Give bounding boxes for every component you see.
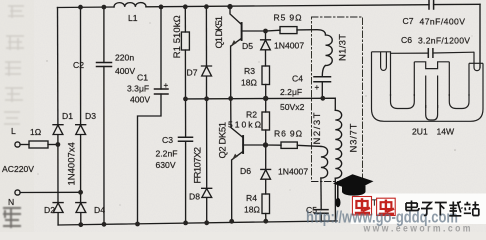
node bus-D7/D8 <box>204 96 209 101</box>
svg-text:C4: C4 <box>292 74 303 84</box>
capacitor C7 <box>429 1 434 10</box>
svg-text:2.2nF: 2.2nF <box>156 149 178 159</box>
diode D8 <box>202 188 212 223</box>
wire D8 branch <box>206 99 208 188</box>
wire C1 bottom jog <box>138 94 162 224</box>
node rail-R1 <box>183 4 188 9</box>
lamp tube4 top edge <box>469 62 483 64</box>
wire L to R fuse <box>20 144 29 146</box>
diode D4 <box>76 203 86 225</box>
node rail-Q2 emitter <box>229 219 234 224</box>
diode D7 <box>202 66 212 99</box>
wire bus corner to N3 <box>323 98 336 110</box>
svg-text:1N4007: 1N4007 <box>274 41 304 51</box>
inductor L1 <box>114 3 146 7</box>
wire left rail down <box>57 8 59 125</box>
node rail-D7 <box>204 4 209 9</box>
svg-text:N2/3T: N2/3T <box>312 112 323 144</box>
diode D5 <box>261 31 271 66</box>
svg-text:D8: D8 <box>189 192 200 202</box>
svg-text:C7: C7 <box>403 16 414 26</box>
filament hook left <box>381 52 387 71</box>
node fuse-bridge <box>56 142 61 147</box>
wire top rail middle segment <box>146 5 429 7</box>
resistor R1 <box>181 32 189 50</box>
node rail-D3 <box>78 5 83 10</box>
watermark text dian <box>406 201 419 211</box>
diode D6 <box>261 145 271 194</box>
svg-text:3.2nF/1200V: 3.2nF/1200V <box>418 36 470 46</box>
watermark grad cap <box>333 174 374 207</box>
svg-text:+: + <box>315 83 320 92</box>
terminal L <box>15 142 20 147</box>
svg-text:1Ω: 1Ω <box>30 127 42 137</box>
winding N2 <box>321 146 328 178</box>
svg-text:R5 9Ω: R5 9Ω <box>274 13 303 23</box>
resistor R3 <box>262 66 270 85</box>
wire top rail right segment <box>434 3 480 5</box>
watermark text xia <box>435 203 447 216</box>
resistor R2 <box>265 99 267 113</box>
watermark text zhan <box>464 202 479 216</box>
svg-text:D5: D5 <box>242 41 253 51</box>
node Q1 base <box>263 29 268 34</box>
wire N3 to rail <box>334 178 336 221</box>
watermark bug tile 2 <box>377 198 396 215</box>
svg-text:w w w . e e w o r m . c o m: w w w . e e w o r m . c o m <box>363 224 471 233</box>
paper specks <box>37 22 472 205</box>
svg-text:N: N <box>8 197 14 207</box>
svg-text:N3/7T: N3/7T <box>349 123 360 152</box>
node rail-C2 bottom <box>102 222 107 227</box>
capacitor C6 <box>428 48 433 58</box>
node bus-R1/C3 <box>183 97 188 102</box>
lamp inner hole left <box>391 94 415 109</box>
wire R6 to N2 <box>297 145 321 146</box>
svg-text:50Vx2: 50Vx2 <box>280 102 305 112</box>
node rail-C1 <box>159 5 164 10</box>
svg-text:D3: D3 <box>85 111 96 121</box>
svg-text:D1: D1 <box>62 111 73 121</box>
terminal N <box>15 190 20 195</box>
svg-text:47nF/400V: 47nF/400V <box>420 17 466 27</box>
node rail-C2 <box>102 5 107 10</box>
capacitor C4 <box>314 77 331 82</box>
svg-text:R4: R4 <box>246 193 257 203</box>
svg-text:D2: D2 <box>44 205 55 215</box>
lamp bottom outer <box>372 98 484 121</box>
svg-text:3.3μF: 3.3μF <box>127 84 149 94</box>
svg-text:R2: R2 <box>246 110 257 120</box>
svg-text:R6 9Ω: R6 9Ω <box>274 129 303 139</box>
svg-text:2.2μF: 2.2μF <box>280 87 302 97</box>
svg-text:Q2 DK51: Q2 DK51 <box>218 122 229 159</box>
watermark white box <box>351 194 486 225</box>
diode D2 <box>53 203 63 225</box>
lamp inner hole right <box>449 94 469 109</box>
wire R1 branch <box>184 7 186 32</box>
svg-text:R1 510kΩ: R1 510kΩ <box>172 15 183 58</box>
svg-text:L: L <box>11 126 16 136</box>
node bus-Q1e/Q2c <box>228 96 233 101</box>
filament hook right <box>474 52 480 71</box>
node rail-Q1 collector <box>227 4 232 9</box>
faint left watermark column <box>4 6 24 124</box>
wire D1 to D2 <box>57 145 59 203</box>
svg-text:N1/3T: N1/3T <box>338 34 349 61</box>
wire mid bus <box>186 97 323 100</box>
watermark bug tile 1 <box>352 197 371 215</box>
svg-text:630V: 630V <box>156 160 176 170</box>
svg-text:C3: C3 <box>162 135 173 145</box>
winding N1 <box>326 35 333 66</box>
svg-text:D4: D4 <box>94 205 105 215</box>
capacitor C5 <box>315 210 329 214</box>
wire C2 branch <box>103 7 105 224</box>
svg-text:18Ω: 18Ω <box>244 205 261 215</box>
wire N to bridge <box>20 191 81 193</box>
wire N1 to C4 <box>322 66 325 77</box>
watermark text zai <box>449 202 462 216</box>
wire branch D3/D4 <box>80 7 82 124</box>
svg-text:FR107X2: FR107X2 <box>193 147 204 184</box>
svg-text:D7: D7 <box>187 68 198 78</box>
wire lamp top <box>372 52 429 54</box>
svg-text:14W: 14W <box>437 127 456 137</box>
svg-text:C1: C1 <box>137 73 148 83</box>
svg-text:R3: R3 <box>244 66 255 76</box>
svg-text:400V: 400V <box>115 66 135 76</box>
node rail-R4 bottom <box>263 219 268 224</box>
svg-text:1N4007x4: 1N4007x4 <box>67 142 78 185</box>
node bus-C4 <box>320 96 325 101</box>
wire N2 to C5 <box>320 178 322 210</box>
svg-text:18Ω: 18Ω <box>241 78 258 88</box>
lamp tube walls <box>371 52 373 98</box>
wire C6 to right <box>433 51 474 54</box>
wire right drop to lamp <box>479 4 481 67</box>
node rail-C3 bottom <box>183 221 188 226</box>
wire top rail left segment <box>58 6 115 9</box>
capacitor C1 <box>155 89 169 94</box>
node rail-D8 bottom <box>204 220 209 225</box>
node Q2 base <box>263 142 268 147</box>
svg-text:+: + <box>164 81 169 90</box>
svg-text:Q1 DK51: Q1 DK51 <box>214 16 225 49</box>
capacitor C2 <box>97 63 112 67</box>
svg-text:AC220V: AC220V <box>2 164 34 174</box>
node N-bridge <box>78 190 83 195</box>
resistor R6 <box>266 144 282 146</box>
lamp valley <box>426 105 438 120</box>
svg-text:1N4007: 1N4007 <box>278 167 308 177</box>
transformer T1 box <box>312 17 363 182</box>
diode D3 <box>76 125 86 203</box>
node rail-D4 <box>78 222 83 227</box>
node bus-R3/R2 <box>263 96 268 101</box>
wire D7 branch <box>205 7 207 66</box>
resistor R4 <box>262 194 270 214</box>
resistor 1ohm <box>29 141 48 148</box>
svg-text:400V: 400V <box>130 95 150 105</box>
node rail-C1 bottom <box>135 222 140 227</box>
wire C3 branch <box>185 99 187 223</box>
svg-text:220n: 220n <box>115 53 134 63</box>
svg-text:C6: C6 <box>401 35 412 45</box>
wire fuse to bridge <box>48 144 58 146</box>
svg-text:2U1: 2U1 <box>412 127 428 137</box>
svg-text:D6: D6 <box>240 166 251 176</box>
watermark text zi <box>421 203 433 216</box>
svg-text:L1: L1 <box>128 13 138 23</box>
wire C1 branch top <box>160 7 162 89</box>
svg-text:C2: C2 <box>73 60 84 70</box>
transistor Q2 <box>231 99 266 222</box>
lamp bridge top <box>414 62 449 69</box>
dark char bottom-left <box>3 208 21 228</box>
transistor Q1 <box>230 7 266 99</box>
diode D1 <box>53 125 63 145</box>
winding N3 <box>335 110 341 178</box>
wire bottom rail <box>58 221 337 225</box>
wire R5 to N1 <box>297 30 326 35</box>
resistor R5 <box>266 29 281 32</box>
capacitor C3 <box>179 137 193 141</box>
